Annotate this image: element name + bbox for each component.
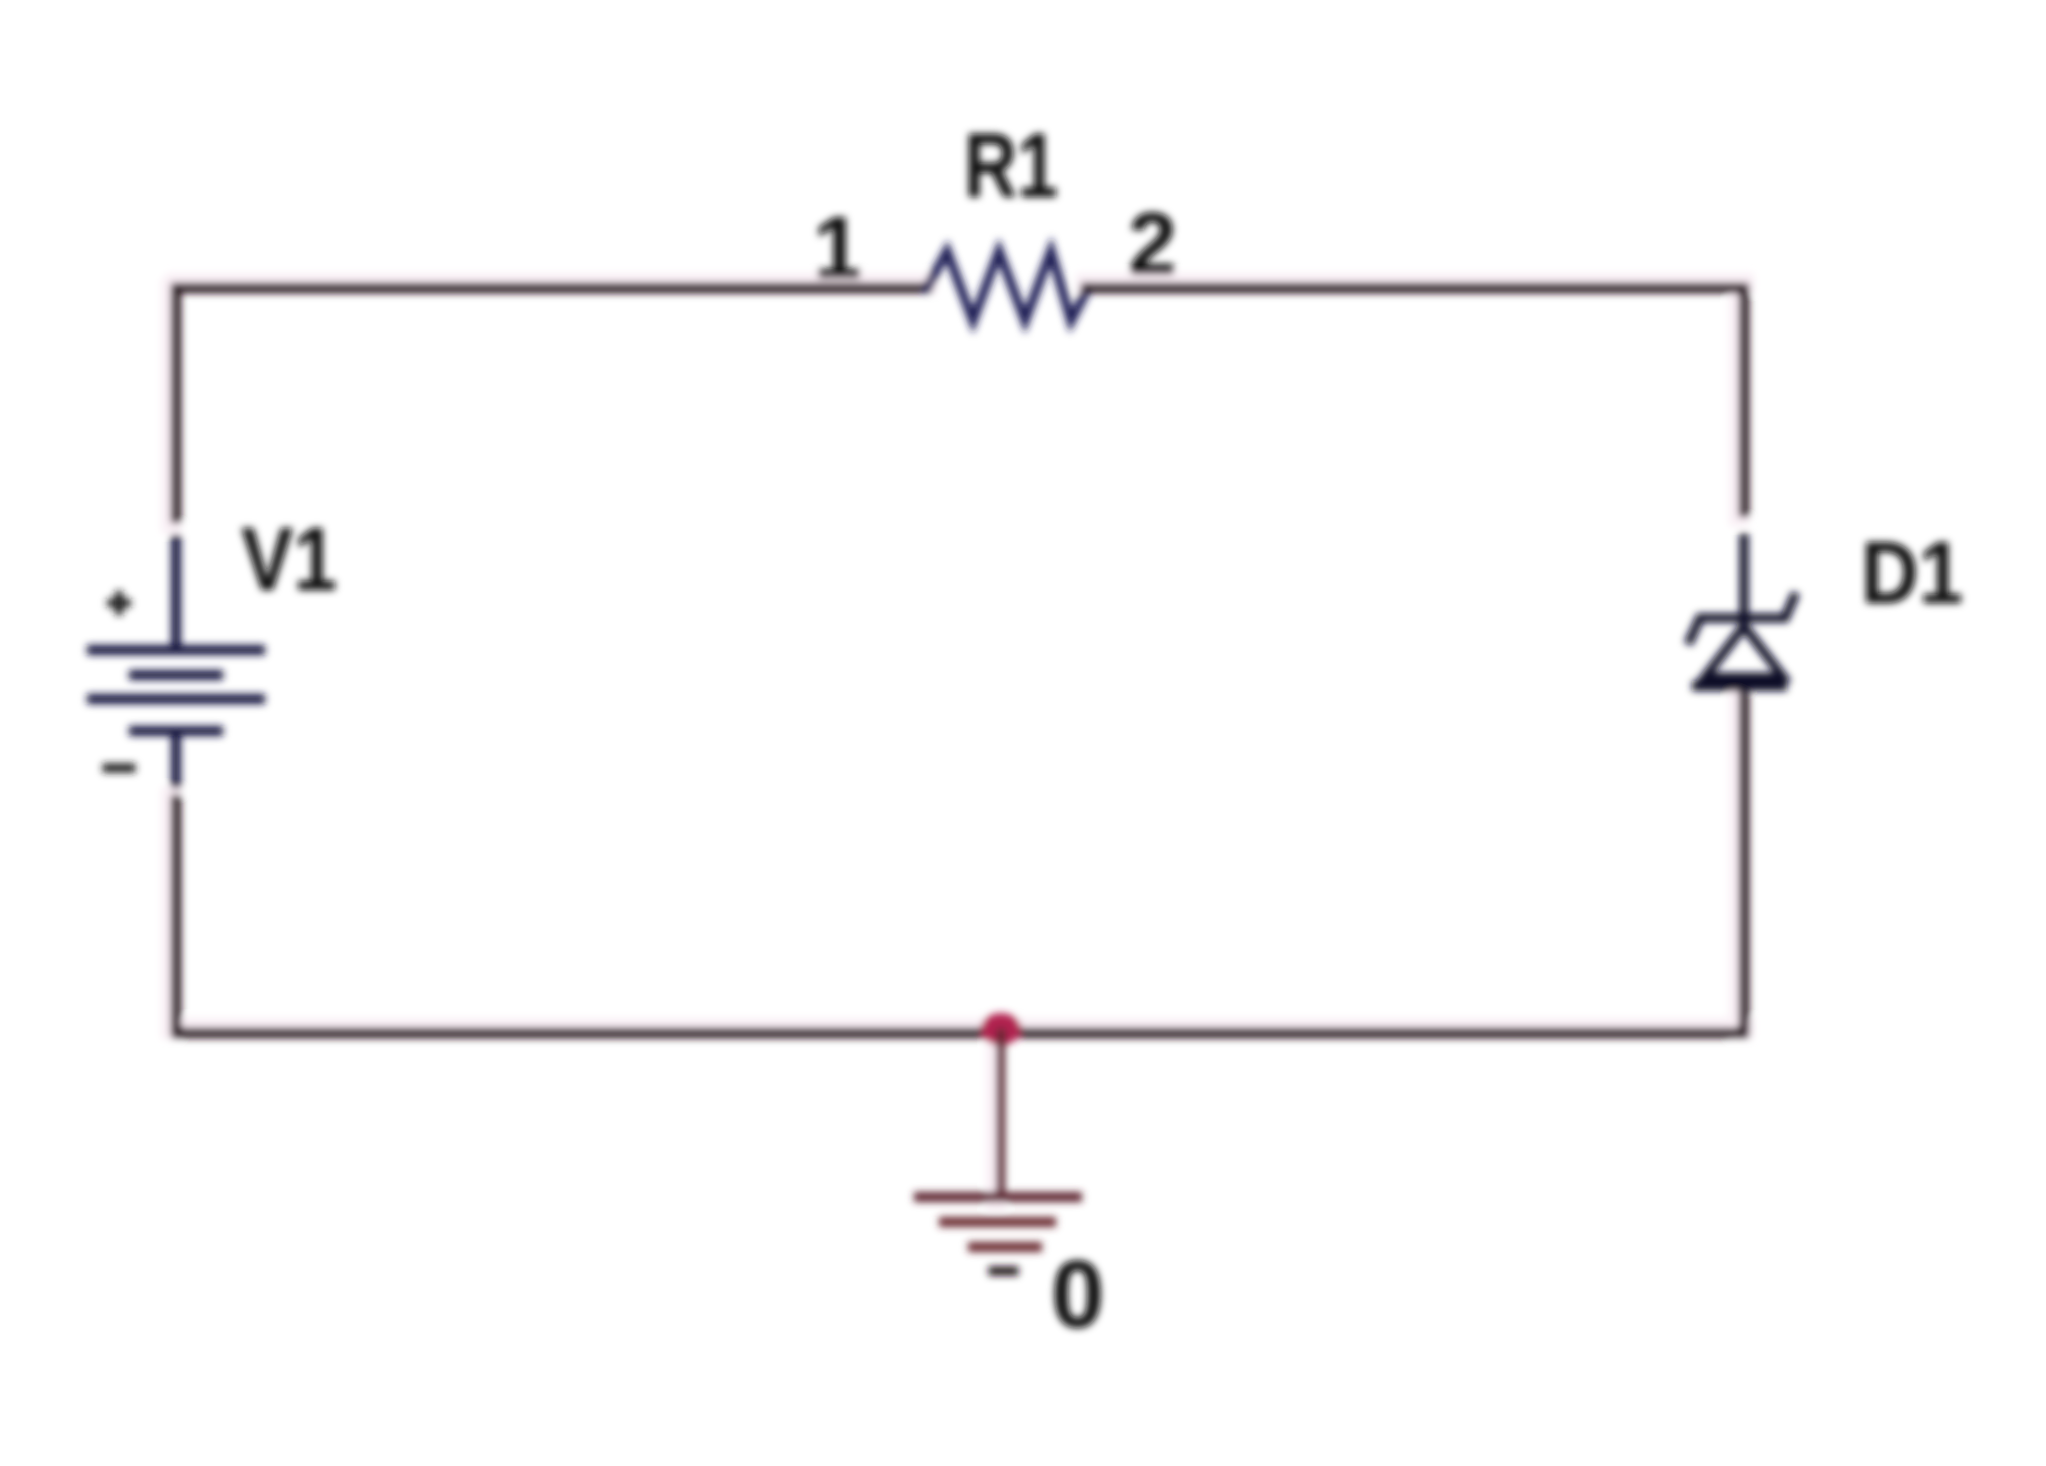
ground 0: [919, 1033, 1077, 1271]
svg-text:V1: V1: [241, 510, 337, 610]
diode D1 (zener): [1690, 538, 1794, 702]
wire glow halo: [171, 283, 1744, 1200]
svg-text:D1: D1: [1861, 523, 1963, 622]
plus mark: [111, 595, 127, 611]
wire top-right segment: [1086, 283, 1744, 293]
wire bottom: [176, 1028, 1744, 1038]
svg-text:0: 0: [1051, 1241, 1104, 1348]
svg-text:2: 2: [1128, 194, 1177, 293]
wire right lower: [1739, 699, 1749, 1033]
minus mark: [107, 764, 131, 773]
node 0 junction dot: [981, 1013, 1021, 1045]
wire left lower: [171, 800, 181, 1033]
svg-text:R1: R1: [964, 115, 1058, 217]
wire left upper: [171, 288, 181, 518]
resistor R1: [927, 251, 1088, 321]
battery V1: [92, 540, 260, 783]
svg-text:1: 1: [813, 198, 862, 297]
wire top-left segment: [176, 283, 927, 293]
wire right upper: [1739, 288, 1749, 512]
